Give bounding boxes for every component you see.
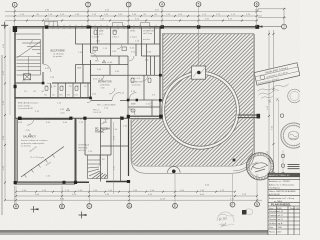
axis drop lines from top bubbles	[15, 7, 257, 27]
scan left edge artifact line	[1, 55, 3, 215]
top dimension chain lines	[5, 12, 262, 21]
right short dim lines near axis7	[258, 8, 286, 10]
corner cross top-left	[1, 22, 8, 29]
terrace hatched slab	[132, 34, 254, 166]
small upper circle stamp	[288, 89, 302, 103]
pool inner wall line	[165, 74, 237, 146]
diagonal ramp in centrala room	[21, 147, 64, 178]
interior partitions upper right block	[76, 27, 161, 182]
bottom axis bubbles	[14, 202, 260, 209]
left exterior wall	[14, 27, 16, 184]
bottom axis rise lines	[16, 174, 257, 204]
stamp B big round stamp	[246, 153, 273, 180]
axis 5 drop line to skimmer	[198, 28, 200, 66]
right vertical dimension lines	[268, 30, 270, 203]
signature squiggles under label	[257, 83, 292, 105]
skimmer box on axis 5	[192, 66, 206, 79]
top-left staircase	[16, 34, 41, 75]
wall y97.5 dark	[15, 97, 91, 99]
top chain numbers	[20, 10, 260, 21]
benchmark cross 1	[31, 206, 37, 213]
terrace top edge line	[162, 33, 254, 35]
centrala termica room thick walls	[74, 118, 76, 184]
benchmark cross 2	[79, 212, 85, 219]
pool fitting bottom-left	[168, 167, 181, 173]
terrace outer kerb outline	[131, 34, 255, 173]
exterior top wall	[15, 26, 258, 28]
title block	[268, 173, 300, 235]
small rooms row dividers x43-90	[51, 83, 89, 98]
circled letters on right edge	[281, 154, 284, 157]
axis 7 arrow line	[259, 26, 282, 28]
column blobs	[13, 25, 260, 184]
door swing arcs	[27, 44, 148, 125]
wall x128.5 lower right side	[128, 116, 130, 176]
bottom dimension chain	[5, 192, 262, 201]
pool outer wall line	[162, 71, 240, 149]
circled letter a	[280, 114, 283, 117]
dark hatch box right of stamp B	[288, 165, 300, 169]
stamp A right edge	[281, 123, 306, 148]
faint pencil stamp bottom middle	[217, 209, 253, 226]
left axis line x14.7 below building	[14, 186, 16, 204]
pool rim white ring	[163, 73, 238, 148]
window ticks on top wall	[48, 25, 156, 29]
x-marked box (CV)	[24, 74, 31, 80]
lower winder staircase	[88, 156, 108, 179]
wall x90.5	[90, 27, 92, 53]
right exterior wall of house	[159, 27, 161, 119]
small dim verticals inside building	[113, 122, 115, 194]
left dim vertical lines	[4, 27, 6, 200]
dark bench wall right of pool	[238, 114, 260, 116]
small boxes above top wall	[45, 21, 58, 26]
pool fitting right	[233, 159, 236, 162]
kitchen right wall x43	[42, 27, 44, 64]
sanitary fixtures tiny	[45, 30, 151, 112]
bottom exterior wall	[15, 181, 90, 183]
small dark box below stamp B	[242, 210, 247, 215]
corridor wall y115	[15, 117, 129, 119]
wall y121 step to terrace	[128, 115, 163, 117]
top chain tick marks	[14, 11, 258, 22]
top axis bubbles	[12, 2, 286, 29]
angled project label box	[254, 63, 300, 86]
wall y83	[15, 82, 43, 84]
scan bottom dark band	[0, 230, 271, 233]
